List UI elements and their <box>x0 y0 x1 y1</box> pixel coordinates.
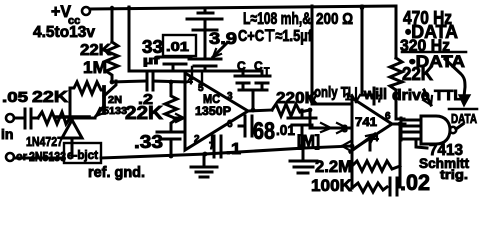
wire tank box bottom <box>129 70 178 73</box>
arrowhead x312 <box>308 95 316 104</box>
pin7 stub <box>373 88 376 104</box>
resistor 22K vertical <box>106 42 118 82</box>
pointer 7413 <box>416 140 427 148</box>
svg-text:22K: 22K <box>32 89 69 106</box>
svg-text:22K: 22K <box>402 64 433 84</box>
wire gate output <box>456 124 463 129</box>
svg-text:.33: .33 <box>134 132 163 152</box>
wire 220K to U2 pin3 <box>310 110 351 128</box>
svg-text:6: 6 <box>385 111 391 122</box>
underline 320Hz / overline DATA bar <box>402 51 466 54</box>
svg-text:.01: .01 <box>276 122 295 139</box>
svg-text:trig.: trig. <box>440 167 468 182</box>
resistor 100K <box>352 183 387 192</box>
svg-text:100K: 100K <box>311 176 353 195</box>
capacitor .33 <box>157 132 184 156</box>
wire bottom mid <box>205 146 352 154</box>
svg-text:4.5to13v: 4.5to13v <box>33 24 95 41</box>
svg-text:2: 2 <box>194 134 200 145</box>
svg-text:T: T <box>264 66 270 76</box>
capacitor CT <box>254 71 270 90</box>
svg-text:drive TTL: drive TTL <box>392 87 463 104</box>
svg-text:7: 7 <box>209 141 215 152</box>
overline DATA output <box>449 108 477 111</box>
wire input <box>14 117 23 120</box>
wire pin2 <box>312 103 351 106</box>
capacitor 3.9 trimmer <box>189 59 221 71</box>
wire output U1 <box>248 110 272 111</box>
capacitor .1 <box>214 136 221 157</box>
nand gate 7413 body <box>421 116 450 144</box>
svg-text:33: 33 <box>142 37 163 57</box>
wire feedback down <box>399 124 402 186</box>
svg-text:DATA: DATA <box>451 111 477 126</box>
svg-text:.01: .01 <box>166 39 189 54</box>
capacitor 33 plates <box>159 57 191 71</box>
wire Vcc drop to 22K <box>111 8 114 42</box>
resistor 22K input <box>38 112 70 124</box>
wire bottom rail left <box>14 154 205 158</box>
capacitor .01 stem <box>193 30 217 56</box>
wire Vcc drop x396 <box>395 6 398 58</box>
svg-text:200 Ω: 200 Ω <box>316 11 353 28</box>
svg-text:22K: 22K <box>125 103 163 123</box>
arrow swoosh drive TTL <box>445 59 465 97</box>
svg-text:1N4727: 1N4727 <box>26 134 63 149</box>
svg-text:3.9: 3.9 <box>209 29 237 48</box>
wire to 22K <box>31 117 38 120</box>
svg-text:5133: 5133 <box>103 106 127 117</box>
svg-text:in: in <box>1 126 13 142</box>
wire tank top to C CT <box>178 70 262 73</box>
capacitor 68 <box>239 116 252 136</box>
trimmer arrow 3.9 <box>213 43 227 57</box>
wire zener to rail <box>71 138 74 157</box>
svg-text:3: 3 <box>342 124 348 135</box>
svg-text:ref. gnd.: ref. gnd. <box>88 164 145 181</box>
nand gate 7413 input stubs <box>400 118 421 140</box>
svg-text:2N5133: 2N5133 <box>29 149 66 164</box>
offset null arrow U2 <box>350 134 375 152</box>
svg-text:will: will <box>363 86 387 103</box>
svg-text:L≈108 mh,&: L≈108 mh,& <box>243 9 311 28</box>
op-amp U1 MC1350P <box>185 73 248 150</box>
resistor 22K bias vertical <box>165 82 177 129</box>
svg-text:C: C <box>254 59 263 73</box>
resistor 1M <box>70 82 104 116</box>
wire U2 output <box>392 123 405 126</box>
pin stubs U1 top <box>192 67 202 85</box>
wire cap to opamp <box>153 81 186 82</box>
svg-text:µf: µf <box>143 55 160 67</box>
wire Vcc drop x312 <box>311 6 314 104</box>
capacitor .2 <box>147 72 153 90</box>
ground ref <box>191 154 217 177</box>
svg-text:[M]: [M] <box>297 133 320 150</box>
pin stub input arrow <box>174 117 184 120</box>
wire C/CT common to output node <box>239 90 267 110</box>
wire node to emitter <box>70 117 95 120</box>
resistor 22K pullup <box>390 58 402 90</box>
ground top center <box>187 8 222 29</box>
svg-text:4: 4 <box>373 133 379 144</box>
wire cap .02 to feedback <box>397 186 400 189</box>
node ref terminal <box>6 153 14 161</box>
wire Vcc drop to tank box <box>128 7 131 71</box>
svg-text:741: 741 <box>355 115 377 129</box>
pin4 stub <box>369 138 372 150</box>
svg-text:e-bjct: e-bjct <box>67 148 98 162</box>
svg-text:1350P: 1350P <box>195 104 231 118</box>
svg-text:7: 7 <box>377 94 383 105</box>
svg-text:5: 5 <box>198 83 204 94</box>
arrowheads pin3 <box>321 123 347 133</box>
svg-text:220K: 220K <box>276 90 317 107</box>
svg-text:2N: 2N <box>108 95 122 106</box>
svg-text:1: 1 <box>345 92 351 103</box>
capacitor C <box>235 71 251 90</box>
box around .01 <box>163 35 196 56</box>
wire Vcc drop x362 <box>362 6 374 95</box>
wire top rail <box>90 6 396 9</box>
svg-text:22K: 22K <box>80 42 111 59</box>
capacitor .05 <box>25 109 31 128</box>
svg-text:6: 6 <box>227 119 233 130</box>
arrow only TI <box>355 88 357 102</box>
svg-text:.02: .02 <box>400 170 430 195</box>
svg-text:2.2M: 2.2M <box>315 157 352 176</box>
bubble <box>450 127 456 133</box>
svg-text:4: 4 <box>187 76 193 87</box>
zener diode 1N4727 <box>55 115 89 119</box>
svg-text:1M: 1M <box>83 58 107 77</box>
resistor 220K <box>272 104 310 116</box>
capacitor (M) <box>288 110 316 146</box>
wire collector node <box>112 81 145 82</box>
svg-text:.05: .05 <box>2 89 28 106</box>
wire pin3 node down <box>351 146 354 188</box>
wire 22K to gate <box>396 90 404 119</box>
node input terminal <box>6 114 14 122</box>
svg-text:.1: .1 <box>226 141 241 158</box>
svg-text:3: 3 <box>227 91 233 102</box>
svg-text:C+C⊤≈1.5µf: C+C⊤≈1.5µf <box>238 28 313 45</box>
svg-text:or: or <box>16 151 28 163</box>
box e-bjct <box>64 143 101 163</box>
arrowhead bottom mid left <box>342 141 351 151</box>
ground 2 <box>290 148 317 173</box>
op-amp U2 741 <box>352 98 392 150</box>
arrow into gate <box>424 90 431 105</box>
pin stub U1 bottom <box>211 134 213 146</box>
transistor Q1 2N5133 <box>102 87 106 113</box>
resistor 2.2M <box>352 161 400 171</box>
capacitor .02 <box>390 178 397 195</box>
node +Vcc terminal <box>82 7 90 15</box>
svg-text:68: 68 <box>253 118 275 145</box>
svg-text:C: C <box>237 59 246 73</box>
